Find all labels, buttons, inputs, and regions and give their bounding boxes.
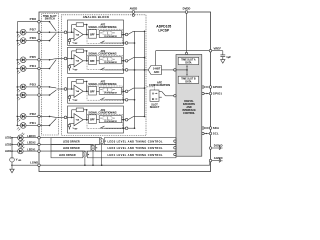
label PD8 bbox=[30, 17, 37, 21]
switch config channel 1 bbox=[100, 41, 105, 43]
node ADC into digital bbox=[174, 69, 176, 71]
wire bbox=[96, 119, 99, 121]
node slot select bbox=[174, 95, 176, 97]
svg-text:AVDD: AVDD bbox=[130, 6, 138, 10]
wire bbox=[122, 91, 126, 93]
wire bbox=[26, 68, 38, 70]
wire bbox=[68, 31, 75, 33]
wire bbox=[11, 150, 17, 152]
wire VREF to ADC bbox=[156, 51, 210, 66]
label PD5 bbox=[30, 55, 37, 59]
wire bbox=[122, 34, 126, 36]
ground DGND bbox=[212, 146, 222, 150]
wire bbox=[57, 88, 65, 90]
pin AGND bbox=[209, 156, 222, 162]
pin PD2 bbox=[38, 115, 41, 118]
wire bbox=[26, 124, 38, 126]
wire ADC input bbox=[128, 69, 148, 71]
pin AVDD bbox=[132, 11, 135, 14]
register TIME SLOT A DATA bbox=[178, 57, 199, 64]
time slot switch block bbox=[42, 14, 59, 136]
label PD6 bbox=[30, 36, 37, 40]
wire bbox=[102, 69, 126, 71]
label AFE signal conditioning ch2 bbox=[88, 50, 116, 56]
wire bbox=[132, 12, 134, 15]
svg-text:PD6: PD6 bbox=[30, 36, 37, 40]
node LED1 timing to digital bbox=[174, 153, 176, 155]
wire bbox=[68, 58, 75, 60]
power DVDD bbox=[183, 6, 191, 10]
wire arrow to slot A bbox=[186, 65, 187, 70]
switch bbox=[49, 21, 57, 31]
photodiode PD4 bbox=[17, 66, 26, 74]
svg-text:CF INTEGRATOR: CF INTEGRATOR bbox=[104, 61, 118, 64]
wire bbox=[83, 60, 88, 62]
wire bbox=[40, 137, 101, 139]
svg-text:LED2: LED2 bbox=[5, 143, 12, 146]
LED LED2 bbox=[18, 139, 25, 147]
wire bbox=[83, 90, 88, 92]
label ADPD105 LFCSP bbox=[156, 25, 171, 33]
wire bbox=[68, 88, 75, 90]
svg-text:REF: REF bbox=[74, 100, 77, 102]
wire bbox=[96, 34, 99, 36]
node config channel 2 bbox=[125, 69, 128, 72]
label LEDX2 bbox=[27, 142, 36, 145]
switch bbox=[49, 119, 57, 127]
switch config channel 4 bbox=[100, 126, 105, 128]
wire arrow to slot B bbox=[186, 70, 187, 76]
svg-text:AGND: AGND bbox=[214, 156, 223, 160]
mux SLOT SELECT bbox=[150, 90, 160, 109]
wire dashed config bbox=[146, 87, 155, 90]
svg-text:GPIO0: GPIO0 bbox=[213, 85, 223, 89]
svg-text:SELECT: SELECT bbox=[150, 106, 160, 109]
svg-text:SIGNAL CONDITIONING: SIGNAL CONDITIONING bbox=[88, 26, 116, 29]
LED1 driver box bbox=[51, 151, 83, 158]
pin GPIO0 bbox=[202, 85, 223, 89]
current source LED3 driver bbox=[100, 138, 106, 144]
wire bbox=[40, 31, 64, 33]
svg-text:ADC: ADC bbox=[154, 70, 160, 74]
pin DVDD bbox=[185, 11, 188, 14]
wire bbox=[23, 143, 38, 145]
svg-text:SIGNAL CONDITIONING: SIGNAL CONDITIONING bbox=[88, 53, 116, 56]
wire bbox=[134, 31, 146, 33]
wire bbox=[40, 59, 64, 60]
wire bbox=[102, 127, 126, 129]
svg-text:SDA: SDA bbox=[213, 126, 219, 130]
filter BPF channel 1 bbox=[89, 30, 97, 39]
svg-text:A: A bbox=[152, 91, 154, 95]
signal conditioning dashed box ch2 bbox=[87, 56, 123, 70]
op-amp TIA channel 1 bbox=[74, 28, 83, 40]
node output channel 3 bbox=[125, 90, 128, 93]
wire bbox=[11, 162, 13, 166]
wire bbox=[17, 21, 38, 23]
svg-text:DVDD: DVDD bbox=[183, 6, 191, 10]
svg-text:LED2 LEVEL AND TIMING CONTROL: LED2 LEVEL AND TIMING CONTROL bbox=[108, 146, 164, 150]
label VREF bbox=[214, 46, 222, 50]
switch bbox=[49, 33, 57, 41]
AFE channel 2 box bbox=[68, 47, 124, 73]
svg-text:REF: REF bbox=[74, 43, 77, 45]
photodiode PD5 bbox=[17, 57, 26, 65]
op-amp TIA channel 3 bbox=[74, 85, 83, 97]
wire bbox=[134, 87, 146, 89]
node input channel 2 bbox=[64, 57, 67, 60]
svg-text:LED3: LED3 bbox=[5, 137, 12, 140]
svg-text:LED3 LEVEL AND TIMING CONTROL: LED3 LEVEL AND TIMING CONTROL bbox=[108, 139, 164, 143]
wire ADC output bbox=[162, 69, 174, 71]
node output channel 1 bbox=[125, 33, 128, 36]
wire bbox=[212, 51, 223, 55]
wire bbox=[17, 68, 21, 70]
svg-text:VREF: VREF bbox=[214, 46, 222, 50]
wire bbox=[23, 150, 38, 152]
switch channel 1 to ADC bbox=[128, 31, 134, 34]
wire bbox=[102, 42, 126, 44]
pin LEDX1 bbox=[38, 150, 41, 153]
wire bbox=[66, 31, 69, 33]
node output channel 4 bbox=[125, 118, 128, 121]
LED3 level timing box bbox=[104, 138, 176, 145]
svg-text:TIME SLOT A: TIME SLOT A bbox=[181, 59, 196, 62]
op-amp TIA channel 4 bbox=[74, 114, 83, 126]
wire bbox=[26, 59, 38, 61]
wire bbox=[17, 86, 21, 88]
svg-text:SCL: SCL bbox=[213, 132, 219, 136]
svg-text:BPF: BPF bbox=[90, 91, 95, 93]
pin DGND bbox=[209, 143, 222, 149]
label LED3 bbox=[5, 137, 12, 140]
wire bbox=[102, 99, 126, 101]
svg-text:CONTROL: CONTROL bbox=[183, 112, 196, 115]
svg-text:LED2 DRIVER: LED2 DRIVER bbox=[63, 147, 80, 150]
wire bbox=[96, 60, 99, 62]
node config channel 3 bbox=[125, 99, 128, 102]
node VREF channel 1 bbox=[68, 38, 77, 45]
wire bbox=[96, 90, 99, 92]
svg-text:TIME SLOT B: TIME SLOT B bbox=[181, 79, 196, 81]
wire bbox=[128, 99, 135, 101]
svg-text:PD2: PD2 bbox=[30, 112, 37, 116]
wire bbox=[26, 94, 38, 96]
node junction bbox=[49, 59, 51, 61]
wire bbox=[122, 60, 126, 62]
integrator channel 3 bbox=[99, 87, 121, 94]
wire bbox=[26, 40, 38, 42]
LED2 driver box bbox=[51, 144, 91, 151]
LED2 level timing box bbox=[96, 144, 177, 151]
ground AGND bbox=[212, 159, 222, 163]
pin PD3 bbox=[38, 86, 41, 89]
svg-text:GPIO1: GPIO1 bbox=[213, 92, 223, 96]
pin PD8 bbox=[38, 20, 41, 23]
wire bbox=[40, 40, 49, 42]
pin VREF bbox=[209, 49, 212, 52]
wire bbox=[40, 116, 64, 117]
wire bbox=[17, 125, 21, 127]
wire bbox=[128, 42, 135, 44]
node input channel 4 bbox=[64, 116, 67, 119]
svg-text:PD5: PD5 bbox=[30, 55, 37, 59]
ground bbox=[221, 60, 225, 64]
wire bbox=[26, 31, 38, 33]
node input channel 1 bbox=[64, 31, 67, 34]
switch channel 4 to ADC bbox=[128, 117, 134, 120]
label PD2 bbox=[30, 112, 37, 116]
op-amp TIA channel 2 bbox=[74, 55, 83, 67]
wire bbox=[68, 117, 75, 119]
svg-text:SWITCH: SWITCH bbox=[45, 18, 55, 21]
integrator channel 2 bbox=[99, 57, 121, 64]
filter BPF channel 2 bbox=[89, 56, 97, 65]
label PD4 bbox=[30, 64, 37, 68]
wire bbox=[40, 150, 85, 152]
current source LED2 driver bbox=[91, 144, 97, 150]
photodiode PD7 bbox=[17, 29, 26, 37]
label LEDX3 bbox=[27, 135, 36, 138]
switch bbox=[49, 60, 57, 70]
ground VLED bbox=[10, 165, 14, 173]
wire bbox=[26, 115, 38, 117]
resistor RF channel 3 bbox=[72, 80, 88, 93]
node DVDD digital block bbox=[185, 52, 187, 54]
svg-text:SIGNAL CONDITIONING: SIGNAL CONDITIONING bbox=[88, 111, 116, 114]
label AFE CONFIGURATION bbox=[149, 80, 170, 87]
wire bbox=[66, 88, 69, 90]
svg-text:REF: REF bbox=[74, 70, 77, 72]
wire bbox=[17, 31, 21, 33]
svg-text:DGND: DGND bbox=[214, 143, 223, 147]
pin PD6 bbox=[38, 39, 41, 42]
label PD3 bbox=[30, 82, 37, 86]
wire bbox=[40, 86, 49, 88]
label AFE signal conditioning ch4 bbox=[88, 109, 116, 115]
switch slot select bbox=[159, 92, 174, 98]
pin GPIO1 bbox=[202, 92, 223, 96]
IC boundary ADPD105 bbox=[39, 12, 211, 172]
node VREF channel 2 bbox=[68, 65, 77, 72]
svg-text:PD1: PD1 bbox=[30, 121, 37, 125]
svg-text:TIA: TIA bbox=[76, 90, 80, 93]
pin SCL bbox=[202, 132, 219, 136]
current source LED1 driver bbox=[83, 151, 89, 157]
AFE channel 1 box bbox=[68, 20, 124, 45]
node config channel 4 bbox=[125, 127, 128, 130]
wire bbox=[66, 58, 69, 60]
wire bbox=[134, 116, 146, 118]
svg-text:BPF: BPF bbox=[90, 120, 95, 122]
wire bbox=[26, 86, 38, 88]
digital datapath block bbox=[176, 55, 202, 157]
wire bbox=[40, 94, 49, 96]
switch config channel 2 bbox=[100, 68, 105, 70]
signal conditioning dashed box ch4 bbox=[87, 114, 123, 128]
wire bbox=[17, 59, 21, 61]
wire bbox=[40, 124, 49, 126]
net mux bus bbox=[144, 31, 146, 116]
pin LGND bbox=[30, 161, 40, 167]
wire bbox=[92, 150, 94, 166]
wire bbox=[11, 144, 17, 146]
svg-text:1μF: 1μF bbox=[226, 55, 231, 59]
wire bbox=[23, 137, 38, 139]
source VLED bbox=[10, 157, 22, 162]
wire bbox=[101, 144, 103, 166]
label LED1 bbox=[5, 150, 12, 153]
node input channel 3 bbox=[64, 88, 67, 91]
svg-text:BPF: BPF bbox=[90, 35, 95, 37]
svg-text:REF: REF bbox=[74, 128, 77, 130]
wire bbox=[66, 116, 69, 118]
svg-text:TIA: TIA bbox=[76, 119, 80, 122]
wire bbox=[176, 69, 188, 71]
photodiode PD1 bbox=[17, 123, 26, 131]
pin PD7 bbox=[38, 31, 41, 34]
filter BPF channel 3 bbox=[89, 86, 97, 95]
label AFE signal conditioning ch3 bbox=[88, 80, 116, 86]
resistor RF channel 2 bbox=[72, 49, 88, 62]
svg-text:TIA: TIA bbox=[76, 60, 80, 63]
svg-text:SIGNAL CONDITIONING: SIGNAL CONDITIONING bbox=[88, 83, 116, 86]
integrator channel 4 bbox=[99, 116, 121, 123]
wire bbox=[40, 143, 93, 145]
wire bbox=[17, 116, 21, 118]
wire bbox=[83, 119, 88, 121]
switch channel 3 to ADC bbox=[128, 88, 134, 91]
node cathode bus bbox=[16, 22, 18, 126]
svg-text:B: B bbox=[152, 97, 154, 101]
wire bbox=[186, 13, 188, 52]
label LEDX1 bbox=[27, 148, 36, 151]
net LGND rail bbox=[40, 162, 210, 165]
analog block bbox=[62, 15, 147, 136]
svg-text:CF INTEGRATOR: CF INTEGRATOR bbox=[104, 92, 118, 95]
svg-text:PD4: PD4 bbox=[30, 64, 37, 68]
svg-text:LED3 DRIVER: LED3 DRIVER bbox=[63, 140, 80, 143]
switch bbox=[49, 86, 57, 88]
LED LED3 bbox=[18, 133, 25, 141]
signal conditioning dashed box ch1 bbox=[87, 29, 123, 43]
signal conditioning dashed box ch3 bbox=[87, 86, 123, 100]
label PD7 bbox=[30, 28, 37, 32]
node LED2 timing to digital bbox=[174, 147, 176, 149]
LED LED1 bbox=[18, 146, 25, 154]
switch config channel 3 bbox=[100, 98, 105, 100]
net VLED bus bbox=[11, 138, 13, 158]
wire bbox=[17, 94, 21, 96]
svg-text:CF INTEGRATOR: CF INTEGRATOR bbox=[104, 120, 118, 123]
net ADC bus bbox=[134, 31, 136, 128]
svg-text:PD8: PD8 bbox=[30, 17, 37, 21]
pin PD5 bbox=[38, 59, 41, 62]
pin LEDX2 bbox=[38, 143, 41, 146]
svg-text:LED1: LED1 bbox=[5, 150, 12, 153]
node LED3 timing to digital bbox=[174, 140, 176, 142]
pin LEDX3 bbox=[38, 136, 41, 139]
switch bbox=[49, 90, 57, 96]
wire bbox=[40, 21, 49, 23]
svg-text:DATA: DATA bbox=[185, 62, 191, 65]
node junction bbox=[49, 31, 51, 33]
pin PD bbox=[38, 94, 41, 97]
ADC 14-bit bbox=[148, 66, 161, 75]
photodiode PD3 bbox=[17, 84, 26, 92]
wire bbox=[17, 40, 21, 42]
power AVDD bbox=[130, 6, 138, 10]
wire bbox=[13, 164, 38, 166]
svg-text:TIA: TIA bbox=[76, 33, 80, 36]
label PD1 bbox=[30, 121, 37, 125]
svg-text:CF INTEGRATOR: CF INTEGRATOR bbox=[104, 35, 118, 38]
svg-text:PD3: PD3 bbox=[30, 82, 37, 86]
integrator channel 1 bbox=[99, 31, 121, 38]
pin PD4 bbox=[38, 67, 41, 70]
node AVDD analog block bbox=[132, 14, 134, 16]
svg-text:LED1 DRIVER: LED1 DRIVER bbox=[59, 154, 76, 157]
node VREF channel 4 bbox=[68, 124, 77, 131]
pin SDA bbox=[202, 126, 219, 130]
svg-text:LED1 LEVEL AND TIMING CONTROL: LED1 LEVEL AND TIMING CONTROL bbox=[108, 153, 164, 157]
wire bbox=[84, 157, 86, 166]
wire bbox=[40, 68, 49, 70]
filter BPF channel 4 bbox=[89, 115, 97, 124]
svg-text:PD7: PD7 bbox=[30, 28, 37, 32]
photodiode PD bbox=[17, 92, 26, 100]
AFE channel 4 box bbox=[68, 106, 124, 133]
svg-text:LGND: LGND bbox=[30, 161, 38, 165]
svg-text:ANALOG BLOCK: ANALOG BLOCK bbox=[83, 15, 110, 19]
label AFE signal conditioning ch1 bbox=[88, 24, 116, 30]
node VREF channel 3 bbox=[68, 95, 77, 102]
wire bbox=[83, 34, 88, 36]
label LED2 bbox=[5, 143, 12, 146]
svg-text:DATA: DATA bbox=[185, 80, 191, 83]
svg-text:BPF: BPF bbox=[90, 61, 95, 63]
node output channel 2 bbox=[125, 60, 128, 63]
capacitor 1uF bbox=[220, 55, 231, 60]
node ADC out bbox=[174, 69, 176, 71]
node config channel 1 bbox=[125, 42, 128, 45]
wire bbox=[11, 137, 17, 139]
switch channel 2 to ADC bbox=[128, 58, 134, 61]
wire bbox=[122, 119, 126, 121]
wire bbox=[134, 57, 146, 59]
LED1 level timing box bbox=[87, 151, 176, 158]
pin PD1 bbox=[38, 124, 41, 127]
svg-text:LFCSP: LFCSP bbox=[158, 29, 170, 33]
node junction bbox=[49, 116, 51, 118]
wire bbox=[128, 127, 135, 129]
register TIME SLOT B DATA bbox=[178, 76, 199, 83]
photodiode PD2 bbox=[17, 114, 26, 122]
LED3 driver box bbox=[51, 138, 100, 145]
resistor RF channel 4 bbox=[72, 108, 88, 120]
AFE channel 3 box bbox=[68, 78, 124, 104]
resistor RF channel 1 bbox=[72, 23, 88, 36]
photodiode PD6 bbox=[17, 38, 26, 46]
